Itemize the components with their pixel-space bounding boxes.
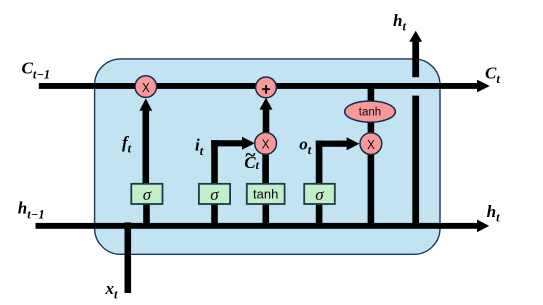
- svg-text:xt: xt: [105, 279, 119, 302]
- svg-text:X: X: [262, 137, 270, 152]
- svg-text:ht: ht: [393, 11, 406, 34]
- svg-text:σ: σ: [143, 185, 152, 204]
- svg-text:σ: σ: [210, 185, 219, 204]
- svg-text:tanh: tanh: [253, 187, 278, 202]
- svg-text:ht: ht: [487, 202, 500, 225]
- svg-text:σ: σ: [315, 185, 324, 204]
- svg-text:ht−1: ht−1: [18, 199, 45, 222]
- svg-text:~: ~: [245, 145, 256, 166]
- svg-text:X: X: [367, 137, 375, 152]
- svg-text:X: X: [142, 80, 150, 95]
- svg-text:tanh: tanh: [359, 107, 381, 119]
- svg-text:Ct: Ct: [485, 63, 500, 86]
- svg-text:Ct−1: Ct−1: [22, 59, 51, 82]
